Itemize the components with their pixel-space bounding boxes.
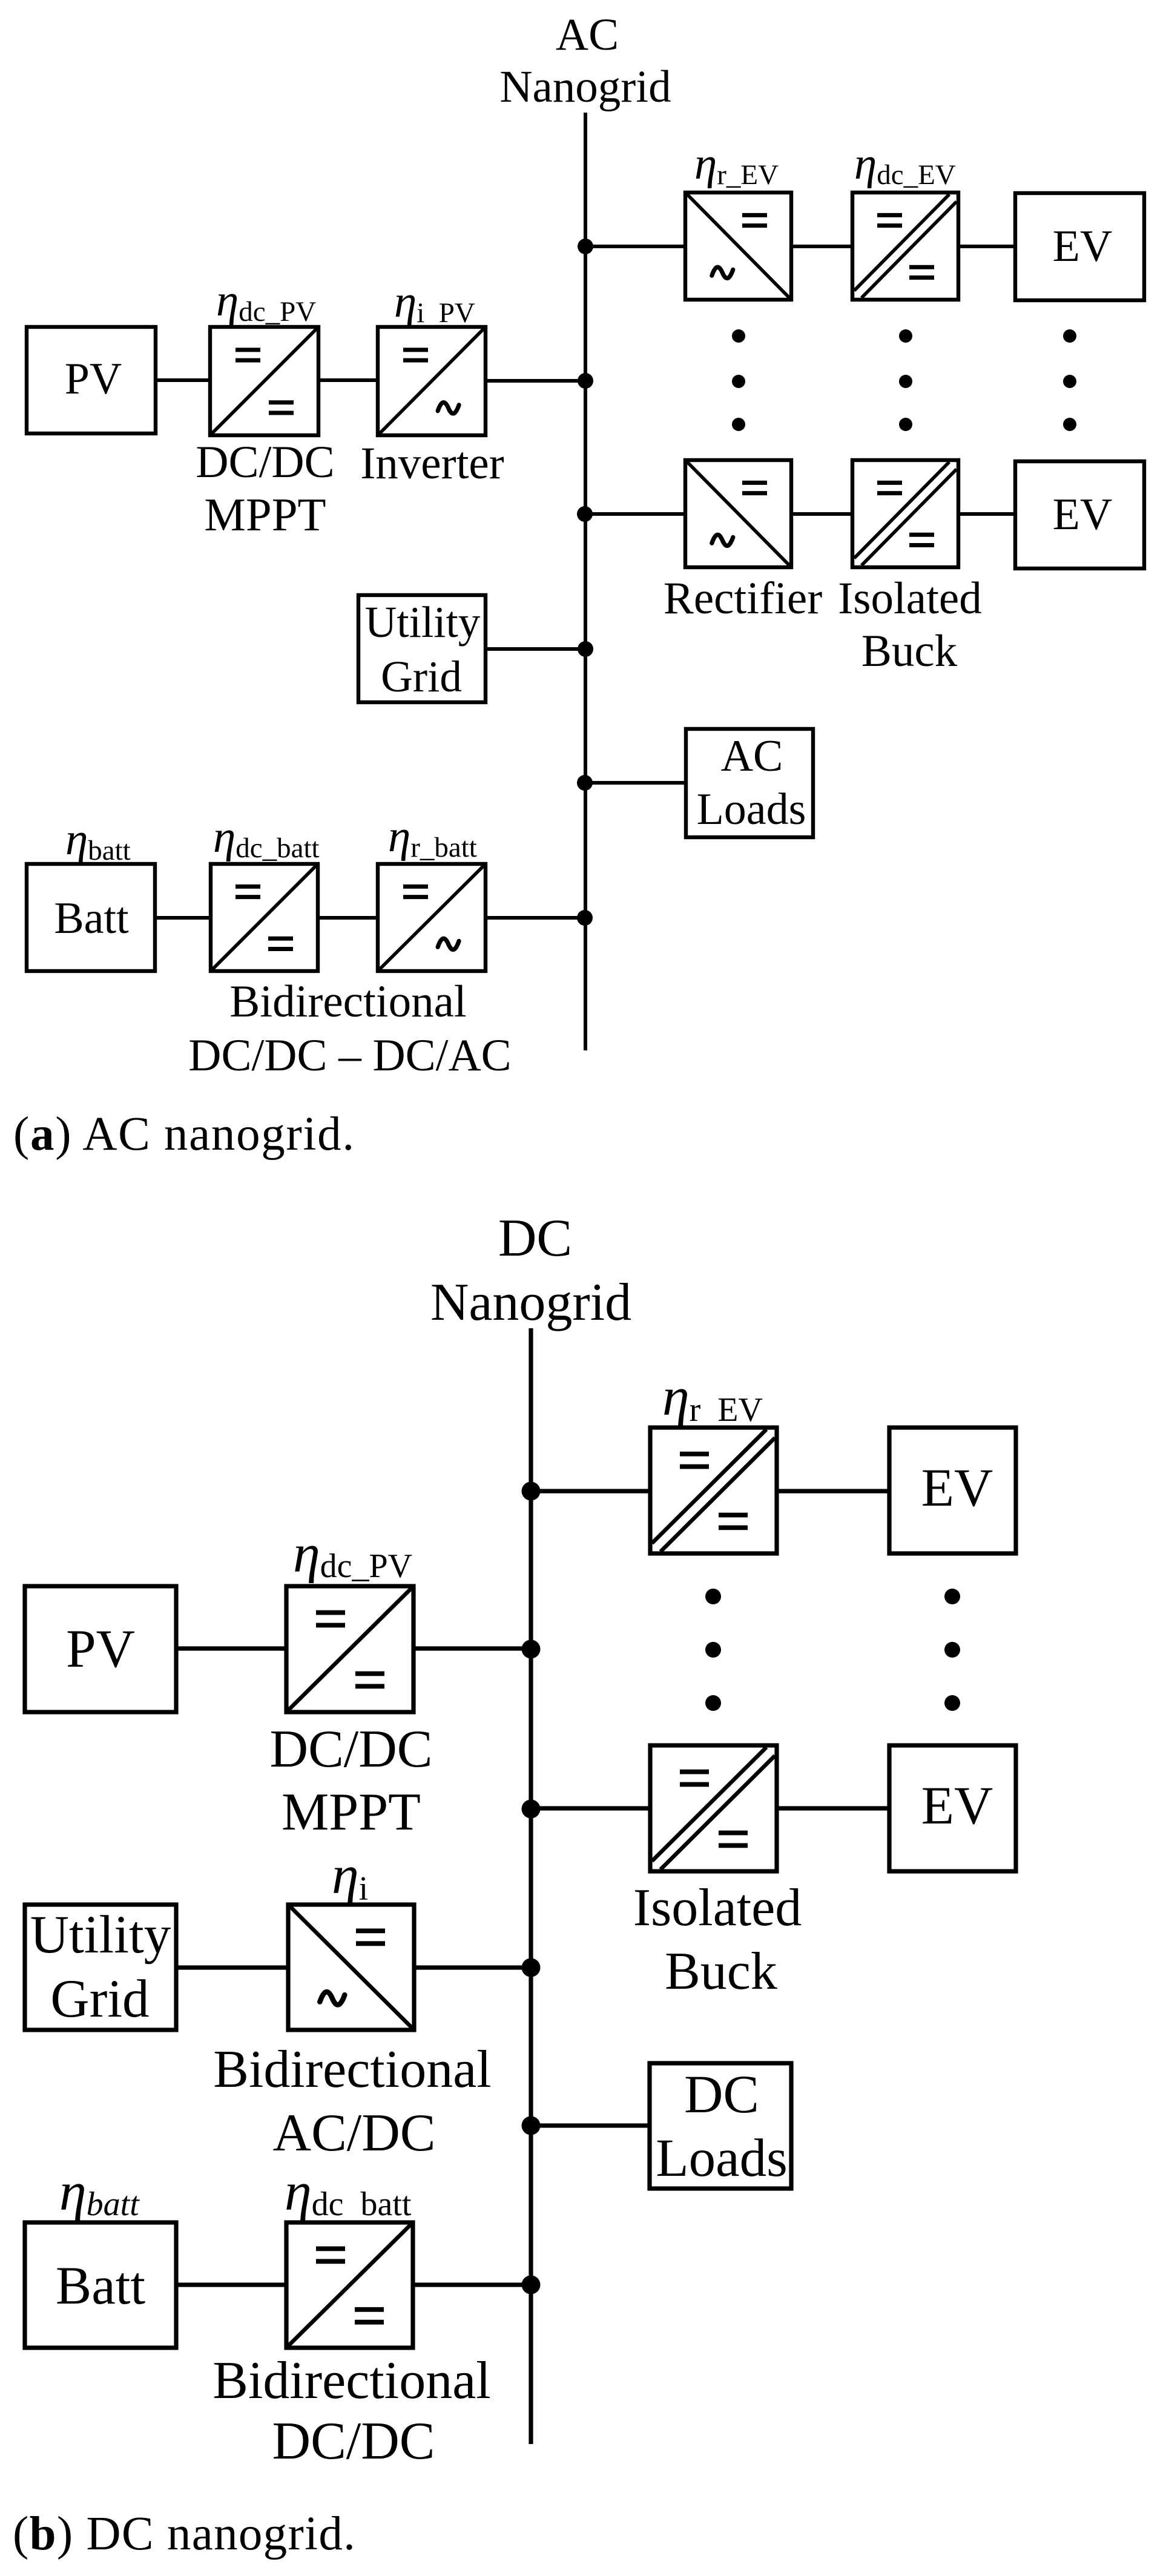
converter isolated buck 2 (b)	[650, 1745, 777, 1871]
wire bus to rectifier 2 (a)	[585, 512, 687, 516]
label Bidirectional DC/DC - DC/AC (a)	[188, 977, 511, 1081]
junction bus to EV branch 2 (a)	[577, 506, 593, 522]
block Utility Grid (a)	[358, 595, 486, 702]
svg-text:MPPT: MPPT	[282, 1783, 421, 1842]
svg-text:AC/DC: AC/DC	[273, 2104, 436, 2163]
block AC Loads (a)	[686, 729, 813, 837]
svg-text:DC/DC: DC/DC	[270, 1720, 433, 1779]
converter bidirectional DC/DC (b)	[286, 2222, 413, 2348]
label Bidirectional DC/DC (b)	[212, 2351, 490, 2471]
wire bus to isolated buck 1 (b)	[531, 1489, 651, 1493]
svg-text:EV: EV	[921, 1776, 993, 1836]
svg-text:Utility: Utility	[30, 1905, 171, 1965]
svg-text:(a) AC nanogrid.: (a) AC nanogrid.	[13, 1108, 355, 1161]
converter inverter (a)	[378, 327, 486, 435]
block PV (b)	[25, 1586, 176, 1712]
ellipsis dots rectifier column (a)	[732, 329, 745, 431]
svg-text:Bidirectional: Bidirectional	[212, 2351, 490, 2410]
wire rectifier 1 to isolated buck 1 (a)	[791, 245, 854, 248]
converter DC/DC MPPT (a)	[210, 327, 318, 435]
wire DC/DC to bus (b)	[413, 2282, 531, 2287]
wire bus to rectifier 1 (a)	[585, 245, 687, 248]
wire isolated buck 1 to EV 1 (a)	[958, 245, 1016, 248]
svg-text:Nanogrid: Nanogrid	[430, 1273, 631, 1332]
svg-text:Buck: Buck	[665, 1942, 777, 2001]
junction bus to EV branch 1 (b)	[522, 1482, 541, 1501]
svg-text:DC/DC – DC/AC: DC/DC – DC/AC	[188, 1030, 511, 1081]
svg-text:AC: AC	[721, 731, 783, 781]
block EV 2 (b)	[889, 1745, 1016, 1871]
svg-text:Batt: Batt	[54, 894, 129, 943]
svg-text:Rectifier: Rectifier	[664, 573, 822, 624]
svg-text:Bidirectional: Bidirectional	[213, 2040, 491, 2099]
wire PV to DC/DC MPPT (b)	[176, 1646, 288, 1650]
converter isolated buck 1 (a)	[852, 193, 958, 300]
block DC Loads (b)	[650, 2063, 791, 2189]
wire DC/AC to bus (a)	[486, 916, 585, 920]
svg-text:Bidirectional: Bidirectional	[229, 977, 467, 1027]
svg-text:Grid: Grid	[50, 1969, 149, 2029]
label DC/DC MPPT (b)	[270, 1720, 433, 1842]
svg-text:Grid: Grid	[381, 652, 462, 701]
junction bus to EV branch 1 (a)	[578, 239, 593, 254]
wire isolated buck 1 to EV 1 (b)	[777, 1489, 891, 1493]
ellipsis dots buck column (b)	[705, 1589, 721, 1711]
wire Utility Grid to AC/DC (b)	[176, 1965, 289, 1969]
svg-text:Loads: Loads	[697, 785, 806, 834]
node DC Nanogrid bus label	[430, 1209, 631, 1332]
label DC/DC MPPT (a)	[196, 437, 334, 541]
junction utility branch on bus (a)	[578, 641, 593, 657]
svg-text:DC/DC: DC/DC	[272, 2412, 435, 2471]
label Bidirectional AC/DC (b)	[213, 2040, 491, 2163]
svg-text:Buck: Buck	[861, 626, 958, 676]
wire bus to DC Loads (b)	[531, 2123, 651, 2127]
wire Utility Grid to bus (a)	[486, 647, 585, 651]
ellipsis dots buck column (a)	[899, 329, 912, 431]
block PV (a)	[27, 327, 156, 433]
block EV 2 (a)	[1015, 461, 1144, 568]
junction bus to EV branch 2 (b)	[522, 1800, 541, 1819]
converter rectifier 1 (a)	[685, 193, 791, 300]
block EV 1 (a)	[1015, 193, 1144, 300]
wire AC/DC to bus (b)	[414, 1965, 531, 1969]
label Isolated Buck (b)	[633, 1879, 802, 2001]
converter isolated buck 1 (b)	[650, 1428, 777, 1553]
label Isolated Buck (a)	[838, 573, 981, 676]
node AC Nanogrid bus label	[499, 10, 671, 112]
wire Batt to DC/DC (b)	[176, 2282, 288, 2287]
wire isolated buck 2 to EV 2 (b)	[777, 1806, 891, 1810]
svg-text:Utility: Utility	[365, 598, 481, 647]
svg-text:PV: PV	[65, 354, 122, 404]
converter isolated buck 2 (a)	[852, 460, 958, 567]
wire Batt to DC/DC (a)	[155, 916, 211, 920]
svg-text:Inverter: Inverter	[360, 438, 504, 489]
svg-text:AC: AC	[556, 10, 619, 60]
converter rectifier 2 (a)	[685, 460, 791, 567]
converter bidirectional DC/AC (a)	[378, 864, 486, 971]
svg-text:PV: PV	[66, 1619, 135, 1679]
svg-text:EV: EV	[1053, 490, 1113, 539]
wire inverter to bus (a)	[486, 379, 585, 383]
wire DC/DC MPPT to bus (b)	[413, 1646, 531, 1650]
svg-text:DC/DC: DC/DC	[196, 437, 334, 487]
svg-text:(b) DC nanogrid.: (b) DC nanogrid.	[13, 2508, 356, 2560]
svg-text:Isolated: Isolated	[838, 573, 981, 624]
junction battery branch on bus (a)	[577, 910, 593, 926]
wire DC/DC to DC/AC (a)	[318, 916, 379, 920]
svg-text:EV: EV	[1053, 222, 1113, 271]
junction DC loads branch on bus (b)	[522, 2116, 541, 2135]
svg-text:Nanogrid: Nanogrid	[499, 62, 671, 112]
junction AC loads branch on bus (a)	[577, 775, 593, 791]
wire rectifier 2 to isolated buck 2 (a)	[791, 512, 854, 516]
junction inverter branch on bus (a)	[578, 373, 593, 389]
block Batt (b)	[25, 2222, 176, 2348]
svg-text:DC: DC	[684, 2065, 759, 2124]
svg-text:Batt: Batt	[56, 2256, 146, 2316]
junction PV branch on bus (b)	[522, 1640, 541, 1659]
block EV 1 (b)	[889, 1428, 1016, 1553]
wire isolated buck 2 to EV 2 (a)	[958, 512, 1016, 516]
converter bidirectional DC/DC (a)	[211, 864, 318, 971]
svg-text:MPPT: MPPT	[204, 489, 326, 541]
junction utility branch on bus (b)	[522, 1958, 541, 1977]
svg-text:Isolated: Isolated	[633, 1879, 802, 1937]
svg-text:DC: DC	[498, 1209, 572, 1268]
svg-text:Loads: Loads	[656, 2129, 788, 2188]
wire DC nanogrid vertical bus	[529, 1328, 533, 2444]
ellipsis dots EV column (a)	[1063, 329, 1076, 431]
wire bus to AC Loads (a)	[585, 781, 687, 785]
ellipsis dots EV column (b)	[944, 1589, 960, 1711]
block Utility Grid (b)	[25, 1905, 176, 2030]
wire DC/DC MPPT to inverter (a)	[318, 378, 379, 382]
converter bidirectional AC/DC (b)	[288, 1905, 414, 2030]
converter DC/DC MPPT (b)	[286, 1586, 413, 1712]
svg-text:EV: EV	[921, 1458, 993, 1518]
wire bus to isolated buck 2 (b)	[531, 1806, 651, 1810]
block Batt (a)	[27, 864, 155, 971]
wire AC nanogrid vertical bus	[584, 113, 587, 1050]
wire PV to DC/DC MPPT (a)	[156, 378, 211, 382]
junction battery branch on bus (b)	[522, 2276, 541, 2294]
